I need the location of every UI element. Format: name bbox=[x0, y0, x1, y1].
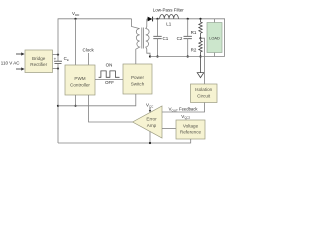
PWM pin1 wire bbox=[75, 95, 77, 106]
svg-text:C1: C1 bbox=[163, 36, 169, 41]
svg-text:C2: C2 bbox=[177, 36, 183, 41]
wire VDD to PWM bbox=[75, 19, 77, 65]
wire DC bus negative vertical bbox=[57, 64, 59, 143]
transformer primary winding bbox=[132, 19, 140, 64]
transformer secondary winding bbox=[146, 19, 150, 56]
op-amp error amplifier bbox=[133, 106, 162, 138]
wire PWM to power switch bbox=[95, 79, 123, 81]
LOAD block bbox=[214, 19, 216, 23]
wire bridge - output bbox=[53, 68, 59, 70]
node VDD bbox=[74, 18, 76, 20]
node rail common bbox=[57, 105, 59, 107]
diode D1 bbox=[147, 17, 153, 22]
node secondary return bbox=[149, 55, 151, 57]
resistor R1 bbox=[199, 19, 202, 38]
bridge rectifier block bbox=[25, 50, 53, 73]
isolation circuit block bbox=[191, 84, 218, 103]
svg-text:Error: Error bbox=[146, 117, 157, 122]
svg-text:Voltage: Voltage bbox=[183, 123, 199, 128]
wire secondary ground bus bbox=[150, 56, 225, 58]
wire clock to PWM bbox=[88, 53, 90, 65]
resistor R2 bbox=[199, 38, 202, 56]
node bridge - bbox=[57, 67, 59, 69]
node ground rail bbox=[149, 142, 151, 144]
svg-text:+: + bbox=[54, 56, 57, 61]
wire DC bus positive vertical bbox=[58, 19, 132, 61]
svg-text:Controller: Controller bbox=[70, 82, 90, 87]
node divider tap bbox=[199, 37, 201, 39]
wire voltage reference to error amp bbox=[162, 128, 176, 130]
wire vref ground bbox=[58, 139, 191, 143]
node C1 bottom bbox=[156, 55, 158, 57]
waveform ON OFF bbox=[99, 71, 120, 77]
wire error amp output to PWM bbox=[89, 95, 133, 122]
node R1 top bbox=[199, 18, 201, 20]
voltage reference block bbox=[176, 120, 205, 139]
wire output top rail bbox=[153, 19, 225, 57]
svg-text:R1: R1 bbox=[191, 30, 197, 35]
svg-text:LOAD: LOAD bbox=[209, 36, 220, 41]
svg-text:PWM: PWM bbox=[74, 76, 85, 81]
node C2 bottom bbox=[187, 55, 189, 57]
svg-text:Isolation: Isolation bbox=[195, 87, 213, 92]
node C1 top bbox=[156, 18, 158, 20]
node pin1 bbox=[74, 105, 76, 107]
ground symbol bbox=[197, 57, 204, 78]
svg-text:Reference: Reference bbox=[180, 130, 202, 135]
wire feedback tap to isolation bbox=[201, 38, 205, 84]
PWM controller block bbox=[65, 65, 95, 95]
wire error amp ground stub bbox=[149, 132, 151, 144]
capacitor C1 bbox=[157, 19, 159, 37]
svg-text:OFF: OFF bbox=[105, 80, 114, 85]
capacitor Cin bbox=[54, 61, 62, 63]
inductor L1 bbox=[160, 14, 179, 18]
transformer core bbox=[141, 28, 143, 49]
svg-text:L1: L1 bbox=[166, 22, 172, 27]
svg-text:Power: Power bbox=[131, 75, 144, 80]
svg-text:ON: ON bbox=[106, 63, 113, 68]
wire primary common bbox=[58, 94, 136, 106]
power switch block bbox=[123, 64, 152, 94]
svg-text:Switch: Switch bbox=[131, 81, 145, 86]
svg-text:Bridge: Bridge bbox=[32, 56, 46, 61]
svg-text:Rectifier: Rectifier bbox=[30, 62, 47, 67]
capacitor C2 bbox=[187, 19, 189, 37]
svg-text:Circuit: Circuit bbox=[197, 93, 211, 98]
wire bridge + output bbox=[53, 54, 59, 56]
svg-text:Clock: Clock bbox=[83, 48, 95, 53]
wire isolation to error amp bbox=[162, 103, 205, 113]
svg-text:110 V AC: 110 V AC bbox=[1, 61, 20, 66]
input arrow bottom bbox=[16, 67, 25, 70]
node R2 bottom bbox=[199, 55, 201, 57]
svg-text:Amp: Amp bbox=[147, 123, 157, 128]
node C2 top bbox=[187, 18, 189, 20]
svg-text:R2: R2 bbox=[191, 47, 197, 52]
wire VCC2 stub bbox=[185, 118, 187, 120]
arrow VCC into error amp bbox=[149, 108, 151, 113]
svg-text:Low-Pass Filter: Low-Pass Filter bbox=[153, 8, 185, 13]
node bridge + bbox=[57, 54, 59, 56]
input arrow top bbox=[16, 52, 25, 55]
